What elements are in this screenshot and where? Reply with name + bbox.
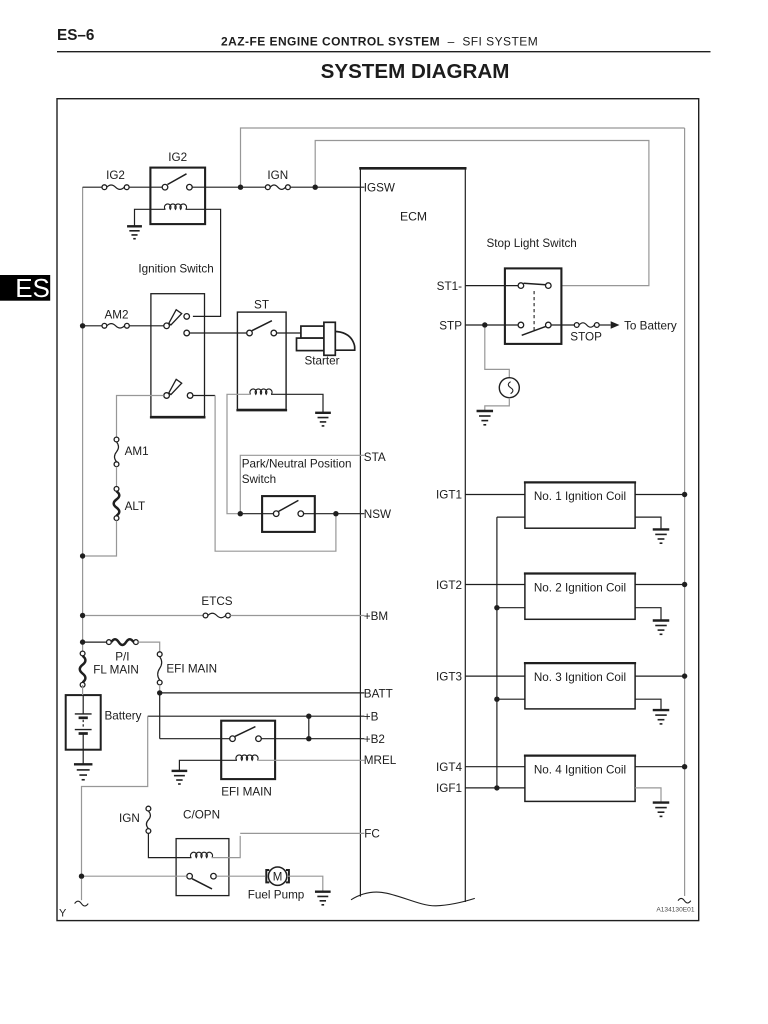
label No. 2 Ignition Coil — [534, 581, 626, 594]
fusible link P/I — [107, 639, 139, 645]
svg-text:IGSW: IGSW — [364, 181, 395, 194]
svg-text:+B2: +B2 — [364, 733, 385, 746]
pin IGSW — [364, 181, 395, 194]
label IGN fuse bottom — [119, 812, 140, 825]
fuel pump motor — [266, 867, 289, 885]
label AM1 — [125, 445, 149, 458]
ignition coil U1 box — [524, 482, 636, 528]
pin IGF1 — [436, 782, 462, 795]
ST relay contact — [247, 321, 277, 336]
label ECM — [400, 210, 427, 224]
battery cells — [75, 714, 92, 750]
wire coil left to ground — [135, 209, 166, 226]
relay IG2 contact — [162, 174, 192, 190]
label Ignition Switch — [138, 262, 213, 275]
wire +BM left — [85, 615, 203, 617]
wire +B2 into relay — [160, 738, 230, 740]
pin IGT3 — [436, 670, 462, 683]
header rule — [57, 51, 711, 53]
svg-text:P/I: P/I — [115, 651, 129, 664]
wire ST to starter — [277, 332, 301, 334]
label ALT — [125, 500, 146, 513]
ignition switch contact ACC2 — [187, 393, 193, 399]
label Starter — [305, 355, 340, 368]
wire IGF1 — [465, 787, 525, 789]
label To Battery — [624, 319, 677, 332]
wire coil U3 to right bus — [635, 675, 682, 677]
svg-text:ES: ES — [15, 273, 50, 303]
wire coil U1 low pin — [497, 516, 525, 518]
svg-text:IGF1: IGF1 — [436, 782, 462, 795]
pin STP — [439, 319, 462, 332]
svg-text:No. 1 Ignition Coil: No. 1 Ignition Coil — [534, 490, 626, 503]
label Fuel Pump — [248, 888, 305, 901]
wire coil U4 to right bus — [635, 766, 682, 768]
fuse IG2 — [102, 185, 129, 190]
wire MREL — [257, 759, 364, 761]
node IGSW junction B — [313, 185, 318, 190]
wire EFI fuse to BATT — [159, 685, 161, 693]
label EFI MAIN relay — [221, 786, 272, 799]
svg-text:+B: +B — [364, 711, 379, 724]
wire battery to ground — [82, 750, 84, 765]
ECM bottom break wave — [351, 892, 475, 906]
label Switch — [242, 473, 276, 486]
svg-text:ALT: ALT — [125, 500, 146, 513]
stop switch pole dashes — [533, 291, 535, 331]
label IG2 relay — [168, 151, 187, 164]
svg-text:IGN: IGN — [119, 812, 140, 825]
diagram outer border — [57, 99, 699, 921]
ignition switch contact ST — [184, 330, 190, 336]
wire top rail A — [241, 128, 685, 187]
node +B2 junction — [306, 736, 311, 741]
node AM2 junction — [80, 323, 85, 328]
wire IGF bus — [496, 517, 498, 788]
starter bell housing — [334, 331, 355, 350]
wire bus to Y break — [81, 879, 83, 900]
EFI MAIN relay box — [221, 721, 275, 779]
svg-text:ETCS: ETCS — [201, 595, 232, 608]
svg-text:+BM: +BM — [364, 610, 388, 623]
C/OPN relay coil — [190, 852, 212, 857]
wire +BM right — [230, 615, 364, 617]
EFI MAIN relay coil — [236, 755, 258, 760]
label Battery — [105, 710, 142, 723]
Y break squiggle — [75, 901, 89, 906]
ignition switch lever 1 — [169, 310, 182, 325]
svg-text:STOP: STOP — [570, 331, 602, 344]
stop switch contact top — [518, 283, 551, 289]
label IG2 fuse — [106, 169, 125, 182]
wire AM1 to ALT — [116, 467, 118, 487]
label FL MAIN — [93, 663, 139, 676]
P/N switch box — [262, 496, 315, 532]
wire to IG2 fuse — [83, 186, 102, 188]
svg-text:AM2: AM2 — [104, 308, 128, 321]
wire coil U4 ground stub — [635, 788, 661, 803]
ST relay box — [236, 312, 287, 410]
stop light switch box — [505, 268, 562, 344]
wire coil U2 ground stub — [635, 608, 661, 621]
wire coil U1 to right bus — [635, 494, 682, 496]
node IGF junction 3 — [494, 697, 499, 702]
wire coil U1 ground stub — [635, 517, 661, 529]
svg-text:ST: ST — [254, 298, 269, 311]
node right bus junction 2 — [682, 582, 687, 587]
page label ES-6 — [57, 27, 94, 44]
ground EFI MAIN relay — [172, 771, 188, 784]
node STA/NSW junction — [238, 511, 243, 516]
svg-text:A134130E01: A134130E01 — [656, 907, 694, 914]
wire coil U3 ground stub — [635, 699, 661, 710]
fuse STOP — [574, 323, 599, 328]
label ETCS — [201, 595, 232, 608]
svg-text:STP: STP — [439, 319, 462, 332]
C/OPN relay box — [176, 839, 229, 896]
label Y — [59, 908, 67, 920]
svg-text:IG2: IG2 — [106, 169, 125, 182]
ground IG2 relay — [127, 226, 142, 238]
svg-text:NSW: NSW — [364, 508, 391, 521]
wire P/I to EFI fuse — [138, 642, 159, 652]
pin NSW — [364, 508, 391, 521]
wire to P/I link — [85, 641, 107, 643]
wire STA — [240, 455, 364, 511]
node BATT junction — [157, 690, 162, 695]
node +B junction — [306, 714, 311, 719]
ST relay coil — [250, 389, 272, 394]
fuse AM2 — [102, 323, 129, 328]
ignition coil U2 box — [524, 574, 636, 620]
page title — [221, 35, 538, 49]
ignition coil U3 box — [524, 663, 636, 709]
wire P/N to ECM NSW — [304, 513, 365, 515]
svg-text:No. 2 Ignition Coil: No. 2 Ignition Coil — [534, 581, 626, 594]
label No. 3 Ignition Coil — [534, 671, 626, 684]
svg-text:IGN: IGN — [267, 169, 288, 182]
pin +B — [364, 711, 379, 724]
wire bus into battery — [82, 685, 85, 714]
pin FC — [364, 828, 380, 841]
wire contact2 under-route to NSW — [193, 395, 215, 397]
wire IGT3 — [465, 675, 525, 677]
fusible link FL MAIN — [80, 651, 86, 687]
battery box — [66, 695, 101, 750]
pin ST1- — [437, 280, 462, 293]
ignition switch lever 2 — [169, 379, 182, 394]
svg-text:IGT2: IGT2 — [436, 579, 462, 592]
starter brush rect — [324, 322, 335, 355]
svg-text:IG2: IG2 — [168, 151, 187, 164]
EFI MAIN relay contact — [230, 727, 262, 742]
wire left bus — [82, 187, 84, 653]
node ETCS junction — [80, 613, 85, 618]
fusible link ALT — [114, 487, 120, 521]
fuse AM1 — [114, 437, 119, 467]
label AM2 fuse — [104, 308, 128, 321]
label P/I — [115, 651, 129, 664]
svg-text:MREL: MREL — [364, 754, 397, 767]
ignition coil U4 box — [524, 756, 636, 802]
ECM box right — [464, 168, 466, 902]
label No. 1 Ignition Coil — [534, 490, 626, 503]
pin IGT1 — [436, 489, 462, 502]
wire IGT2 — [465, 584, 525, 586]
svg-text:Starter: Starter — [305, 355, 340, 368]
pin STA — [364, 451, 386, 464]
svg-text:2AZ-FE ENGINE CONTROL SYSTEM: 2AZ-FE ENGINE CONTROL SYSTEM – SFI SYSTE… — [221, 35, 538, 49]
wire top rail B — [315, 141, 649, 286]
fuse IGN — [265, 185, 290, 190]
wire C/OPN left to bus — [84, 875, 187, 877]
wire under-route — [215, 396, 336, 552]
svg-text:AM1: AM1 — [125, 445, 149, 458]
wire relay to IGN fuse — [192, 186, 265, 188]
wire IGT1 — [465, 494, 525, 496]
wire +B to +B2 link — [308, 716, 310, 739]
wire to battery arrow — [599, 321, 619, 329]
wire IGT4 — [465, 766, 525, 768]
C/OPN relay contact — [187, 873, 217, 889]
svg-text:Ignition Switch: Ignition Switch — [138, 262, 213, 275]
starter solenoid rect — [301, 326, 325, 338]
ground ignition coil U2 — [653, 621, 670, 635]
ES side tab — [0, 273, 50, 303]
svg-text:STA: STA — [364, 451, 386, 464]
svg-text:ECM: ECM — [400, 210, 427, 224]
ignition switch pivot 2 — [164, 393, 170, 399]
wire fuse to relay — [129, 186, 162, 188]
wire +B feed down-route — [82, 716, 148, 874]
right bus break squiggle — [678, 898, 691, 903]
svg-text:No. 4 Ignition Coil: No. 4 Ignition Coil — [534, 763, 626, 776]
ground ignition coil U3 — [653, 710, 670, 724]
fuse EFI MAIN — [157, 652, 162, 685]
wire +B — [148, 715, 365, 717]
ground battery — [74, 764, 92, 779]
ground stop lamp — [477, 411, 494, 425]
node fuel pump feed junction — [79, 874, 84, 879]
wire BATT — [160, 692, 365, 694]
pin +BM — [364, 610, 388, 623]
svg-text:Battery: Battery — [105, 710, 142, 723]
label No. 4 Ignition Coil — [534, 763, 626, 776]
pin IGT4 — [436, 761, 462, 774]
ECM box left — [359, 168, 361, 896]
svg-text:Fuel Pump: Fuel Pump — [248, 888, 305, 901]
svg-text:C/OPN: C/OPN — [183, 809, 220, 822]
svg-text:No. 3 Ignition Coil: No. 3 Ignition Coil — [534, 671, 626, 684]
stop switch contact bottom — [518, 322, 551, 335]
wire relay to +B2 pin — [261, 738, 364, 740]
starter motor rect — [297, 338, 325, 351]
svg-text:Y: Y — [59, 908, 67, 920]
wire coil U3 low pin — [497, 698, 525, 700]
node IGF junction 2 — [494, 605, 499, 610]
relay IG2 box — [150, 168, 205, 225]
wire IGN fuse to ECM — [290, 186, 364, 188]
fuse IGN bottom — [146, 806, 151, 833]
wire FC — [240, 832, 364, 834]
node NSW junction — [333, 511, 338, 516]
wire ST1 to switch — [465, 285, 518, 287]
svg-text:FC: FC — [364, 828, 380, 841]
wire switch to STOP fuse — [551, 324, 574, 326]
svg-text:IGT1: IGT1 — [436, 489, 462, 502]
svg-text:IGT3: IGT3 — [436, 670, 462, 683]
fuse ETCS — [203, 613, 230, 618]
ignition switch box — [150, 294, 206, 418]
label EFI MAIN fuse — [166, 663, 217, 676]
ignition switch contact IG — [184, 314, 190, 320]
wire BATT down to +B2 — [159, 695, 161, 738]
label C/OPN — [183, 809, 220, 822]
wire IGN to C/OPN coil — [148, 833, 191, 857]
pin MREL — [364, 754, 397, 767]
svg-text:Stop Light Switch: Stop Light Switch — [487, 237, 577, 250]
wire ALT to bus — [85, 521, 117, 557]
wire coil to FC riser — [212, 836, 241, 858]
wire STP — [465, 324, 518, 326]
label IGN fuse — [267, 169, 288, 182]
svg-text:IGT4: IGT4 — [436, 761, 462, 774]
wire ST coil right to ground — [271, 394, 323, 413]
node IGSW junction A — [238, 185, 243, 190]
wire to P/N switch — [243, 513, 274, 515]
svg-text:EFI MAIN: EFI MAIN — [221, 786, 272, 799]
pin +B2 — [364, 733, 385, 746]
node right bus junction 4 — [682, 764, 687, 769]
svg-text:M: M — [273, 871, 283, 883]
node right bus junction 3 — [682, 673, 687, 678]
ground ignition coil U1 — [653, 529, 670, 543]
svg-text:SYSTEM DIAGRAM: SYSTEM DIAGRAM — [321, 60, 510, 83]
svg-text:ES–6: ES–6 — [57, 27, 94, 44]
ground ST relay — [315, 413, 331, 426]
stop lamp bulb — [499, 378, 519, 398]
label figure number — [656, 907, 694, 914]
wire ST coil left — [227, 394, 251, 513]
wire STP to stop lamp — [485, 328, 510, 378]
ground ignition coil U4 — [653, 803, 670, 817]
svg-text:ST1-: ST1- — [437, 280, 462, 293]
svg-text:FL MAIN: FL MAIN — [93, 663, 139, 676]
node right bus junction 1 — [682, 492, 687, 497]
wire AM2 to pivot — [129, 325, 163, 327]
wire fuel pump to ground — [287, 876, 323, 892]
node STP junction — [482, 322, 487, 327]
ignition switch pivot 1 — [164, 323, 170, 329]
wire lamp to ground — [485, 398, 510, 411]
wire right bus — [684, 128, 686, 896]
label Stop Light Switch — [487, 237, 577, 250]
wire relay coil to ground — [179, 760, 237, 771]
wire coil U2 to right bus — [635, 584, 682, 586]
label ST — [254, 298, 269, 311]
node IGF junction 4 — [494, 785, 499, 790]
svg-text:To Battery: To Battery — [624, 319, 677, 332]
svg-text:Park/Neutral Position: Park/Neutral Position — [242, 458, 352, 471]
P/N switch contact — [273, 500, 303, 516]
svg-text:BATT: BATT — [364, 687, 393, 700]
relay IG2 coil — [164, 204, 186, 209]
wire AM2 from bus — [85, 325, 102, 327]
wire C/OPN to fuel pump — [216, 875, 265, 877]
node ALT junction — [80, 553, 85, 558]
node P/I junction — [80, 639, 85, 644]
heading SYSTEM DIAGRAM — [321, 60, 510, 83]
svg-text:Switch: Switch — [242, 473, 276, 486]
wire pivot2 to AM1 — [117, 396, 164, 438]
wire coil right riser — [186, 209, 221, 316]
ECM box top — [359, 167, 466, 170]
label Park/Neutral Position — [242, 458, 352, 471]
wire contact ST to ST relay — [190, 332, 247, 334]
pin BATT — [364, 687, 393, 700]
ground fuel pump — [315, 892, 331, 905]
pin IGT2 — [436, 579, 462, 592]
wire coil U2 low pin — [497, 607, 525, 609]
label STOP — [570, 331, 602, 344]
svg-text:EFI MAIN: EFI MAIN — [166, 663, 217, 676]
